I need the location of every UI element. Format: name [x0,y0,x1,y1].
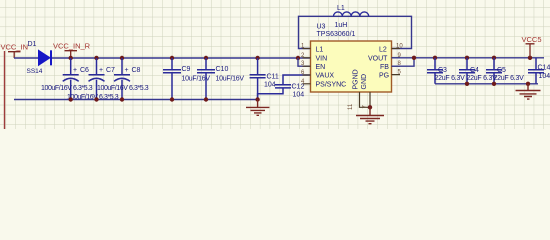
IC bottom pin stubs [360,92,371,107]
svg-text:C4: C4 [470,67,479,74]
junction dots on VIN rail [69,56,301,60]
IC left pin numbers [301,44,305,85]
svg-text:PGND: PGND [353,69,360,89]
ground symbol (under IC) [356,107,384,123]
svg-text:100uF/16V 6.3*5.3: 100uF/16V 6.3*5.3 [97,85,149,92]
IC pin names [316,46,390,88]
svg-text:+: + [73,67,77,74]
output rail VOUT [392,57,545,59]
wire: VCC_IN to diode anode [14,57,39,59]
IC U3 TPS63060/1 [311,41,392,92]
junction dots output rail [412,56,532,60]
svg-text:FB: FB [380,64,389,71]
capacitor C10 [197,58,215,100]
svg-text:GND: GND [361,74,368,90]
svg-text:C8: C8 [132,67,141,74]
svg-text:1uH: 1uH [335,22,348,29]
svg-text:10uF/16V: 10uF/16V [216,75,245,82]
svg-text:22uF 6.3V: 22uF 6.3V [494,75,525,82]
capacitor C14 [528,58,544,84]
svg-text:PG: PG [379,72,389,79]
ground symbol (left) [246,100,269,116]
wire: diode cathode to IC VIN [52,57,311,59]
svg-text:C5: C5 [497,67,506,74]
svg-text:+: + [99,67,103,74]
svg-text:VOUT: VOUT [368,56,388,63]
FB tie wire [392,58,415,66]
svg-text:VCC5: VCC5 [522,35,542,44]
svg-text:C7: C7 [106,67,115,74]
capacitor C9 [163,58,181,100]
svg-text:TPS63060/1: TPS63060/1 [317,31,356,38]
svg-text:U3: U3 [317,23,326,30]
IC left pin stubs [303,49,311,84]
svg-text:100uF/16V 6.3*5.3: 100uF/16V 6.3*5.3 [41,85,93,92]
diode D1 [39,50,53,65]
svg-text:VIN: VIN [316,56,328,63]
power port VCC5 [526,44,535,58]
svg-text:C6: C6 [80,67,89,74]
bottom rail (right) [435,83,538,85]
junction dots bottom rail [69,97,260,101]
svg-text:C11: C11 [267,74,279,81]
IC right pin numbers [396,44,403,76]
EN tie wire [298,58,311,66]
svg-text:11: 11 [348,103,354,110]
svg-text:+: + [125,67,129,74]
wire: L1 top loop [299,16,412,48]
capacitor C5 [486,58,502,84]
inductor L1 [334,12,369,16]
svg-text:SS14: SS14 [27,68,43,75]
capacitor C3 [427,58,443,84]
svg-text:PS/SYNC: PS/SYNC [316,82,347,89]
sheet border (left red line) [4,51,6,129]
ground symbol (right) [516,84,541,99]
capacitor C11 [250,58,266,100]
IC right pin stubs [392,49,401,75]
svg-text:C14: C14 [538,64,550,71]
svg-text:C9: C9 [182,66,191,73]
svg-text:L1: L1 [316,46,324,53]
svg-text:L2: L2 [379,46,387,53]
power port VCC_IN [8,52,21,58]
capacitor C8 (electrolytic) [114,58,130,100]
svg-text:L1: L1 [337,5,345,12]
capacitor C4 [459,58,475,84]
power port VCC_IN_R [65,51,78,58]
svg-text:VCC_IN_R: VCC_IN_R [53,42,91,51]
svg-text:D1: D1 [28,41,37,48]
svg-text:104: 104 [264,82,276,89]
svg-text:C3: C3 [438,67,447,74]
capacitor C7 (electrolytic) [89,58,105,100]
svg-text:10: 10 [396,44,403,50]
svg-text:104: 104 [539,73,550,80]
capacitor C12 [258,75,311,100]
svg-text:22uF 6.3V: 22uF 6.3V [435,75,466,82]
svg-text:C10: C10 [216,66,229,73]
bottom ground rail (left) [14,99,258,101]
svg-text:EN: EN [316,64,326,71]
svg-text:104: 104 [293,92,305,99]
svg-text:VCC_IN: VCC_IN [1,43,29,52]
junction dot under IC [368,105,372,109]
capacitor C6 (electrolytic) [63,58,79,100]
svg-text:VAUX: VAUX [316,73,335,80]
